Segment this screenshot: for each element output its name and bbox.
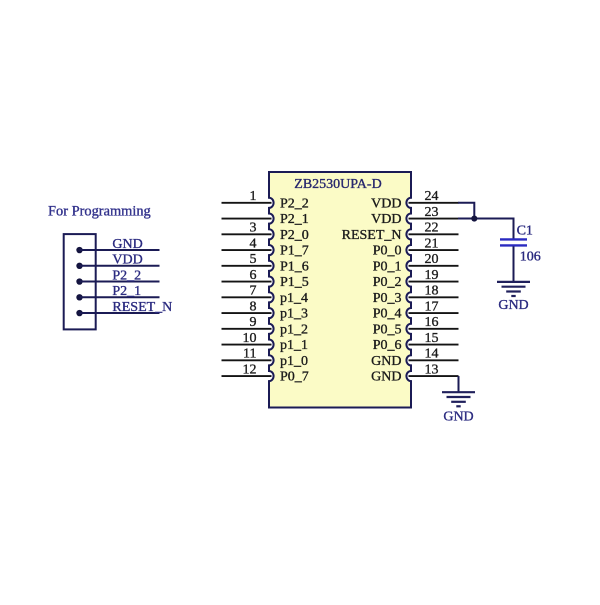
svg-text:12: 12 xyxy=(243,362,257,377)
wire net P2_2 xyxy=(80,281,160,283)
svg-text:ZB2530UPA-D: ZB2530UPA-D xyxy=(294,177,381,192)
pin 19 line xyxy=(409,281,459,283)
svg-text:GND: GND xyxy=(371,354,401,369)
wire net VDD xyxy=(80,265,160,267)
svg-text:14: 14 xyxy=(425,347,439,362)
svg-text:P1_5: P1_5 xyxy=(280,275,309,290)
svg-text:21: 21 xyxy=(425,236,439,251)
svg-text:P0_0: P0_0 xyxy=(373,244,402,259)
svg-text:P0_4: P0_4 xyxy=(373,307,402,322)
svg-text:18: 18 xyxy=(425,284,439,299)
wire net RESET_N xyxy=(80,312,160,314)
svg-text:9: 9 xyxy=(250,315,257,330)
connector pin dot VDD xyxy=(76,263,82,269)
svg-text:19: 19 xyxy=(425,268,439,283)
wire pin13 GND to ground xyxy=(458,376,460,392)
IC U1 ZB2530UPA-D body xyxy=(269,172,411,408)
svg-text:p1_1: p1_1 xyxy=(280,338,308,353)
pin 6 line xyxy=(222,281,272,283)
connector J1 body xyxy=(64,234,96,329)
capacitor C1 plates xyxy=(500,239,527,245)
pin 9 line xyxy=(222,328,272,330)
pin 18 line xyxy=(409,296,459,298)
connector pin dot GND xyxy=(76,247,82,253)
svg-text:RESET_N: RESET_N xyxy=(342,228,402,243)
ground symbol GND at capacitor C1 xyxy=(497,282,530,296)
svg-text:P0_5: P0_5 xyxy=(373,322,402,337)
svg-text:3: 3 xyxy=(250,221,257,236)
svg-text:GND: GND xyxy=(112,237,142,252)
pin 14 line xyxy=(409,359,459,361)
pin 1 line xyxy=(222,202,272,204)
pin 5 line xyxy=(222,265,272,267)
pin 21 line xyxy=(409,249,459,251)
svg-text:13: 13 xyxy=(425,362,439,377)
wire net GND xyxy=(80,249,160,251)
pin 13 line xyxy=(409,375,459,377)
svg-text:17: 17 xyxy=(425,299,439,314)
svg-text:P2_2: P2_2 xyxy=(112,268,141,283)
svg-text:11: 11 xyxy=(243,347,256,362)
pin 3 line xyxy=(222,233,272,235)
pin 7 line xyxy=(222,296,272,298)
svg-text:P2_1: P2_1 xyxy=(280,212,309,227)
connector pin dot P2_1 xyxy=(76,294,82,300)
wire capacitor C1 to ground xyxy=(513,246,515,281)
svg-text:C1: C1 xyxy=(517,224,533,239)
svg-text:For Programming: For Programming xyxy=(48,204,151,220)
svg-text:GND: GND xyxy=(371,370,401,385)
svg-text:p1_3: p1_3 xyxy=(280,307,308,322)
svg-text:15: 15 xyxy=(425,331,439,346)
pin 2 line xyxy=(222,218,272,220)
pin 8 line xyxy=(222,312,272,314)
pin 22 line xyxy=(409,233,459,235)
svg-text:8: 8 xyxy=(250,299,257,314)
pin 10 line xyxy=(222,344,272,346)
svg-text:P1_7: P1_7 xyxy=(280,244,309,259)
svg-text:P0_1: P0_1 xyxy=(373,259,402,274)
pin 23 line xyxy=(409,218,459,220)
connector pin dot P2_2 xyxy=(76,278,82,284)
svg-text:VDD: VDD xyxy=(371,212,401,227)
svg-text:p1_0: p1_0 xyxy=(280,354,308,369)
svg-text:6: 6 xyxy=(250,268,257,283)
pin 17 line xyxy=(409,312,459,314)
wire pin24 VDD to junction xyxy=(458,203,474,219)
svg-text:1: 1 xyxy=(250,189,257,204)
svg-text:GND: GND xyxy=(498,298,528,313)
ground symbol GND at pin 13 xyxy=(442,392,475,406)
svg-text:20: 20 xyxy=(425,252,439,267)
junction VDD node xyxy=(471,215,477,221)
svg-text:p1_2: p1_2 xyxy=(280,322,308,337)
svg-text:24: 24 xyxy=(425,189,439,204)
connector pin dot RESET_N xyxy=(76,310,82,316)
svg-text:P0_7: P0_7 xyxy=(280,370,309,385)
pin 11 line xyxy=(222,359,272,361)
pin 20 line xyxy=(409,265,459,267)
svg-text:VDD: VDD xyxy=(371,196,401,211)
pin 4 line xyxy=(222,249,272,251)
svg-text:P2_1: P2_1 xyxy=(112,284,141,299)
svg-text:23: 23 xyxy=(425,205,439,220)
svg-text:p1_4: p1_4 xyxy=(280,291,308,306)
pin 16 line xyxy=(409,328,459,330)
svg-text:4: 4 xyxy=(250,236,257,251)
svg-text:10: 10 xyxy=(243,331,257,346)
svg-text:5: 5 xyxy=(250,252,257,267)
pin 15 line xyxy=(409,344,459,346)
svg-text:P1_6: P1_6 xyxy=(280,259,309,274)
svg-text:22: 22 xyxy=(425,221,439,236)
svg-text:RESET_N: RESET_N xyxy=(112,300,172,315)
svg-text:16: 16 xyxy=(425,315,439,330)
wire pin23 VDD to capacitor C1 xyxy=(458,219,514,239)
svg-text:7: 7 xyxy=(250,284,257,299)
svg-text:P2_0: P2_0 xyxy=(280,228,309,243)
svg-text:VDD: VDD xyxy=(112,253,142,268)
wire net P2_1 xyxy=(80,296,160,298)
svg-text:P2_2: P2_2 xyxy=(280,196,309,211)
svg-text:P0_3: P0_3 xyxy=(373,291,402,306)
svg-text:P0_6: P0_6 xyxy=(373,338,402,353)
pin 12 line xyxy=(222,375,272,377)
svg-text:106: 106 xyxy=(520,249,541,264)
svg-text:P0_2: P0_2 xyxy=(373,275,402,290)
pin 24 line xyxy=(409,202,459,204)
svg-text:GND: GND xyxy=(443,410,473,425)
